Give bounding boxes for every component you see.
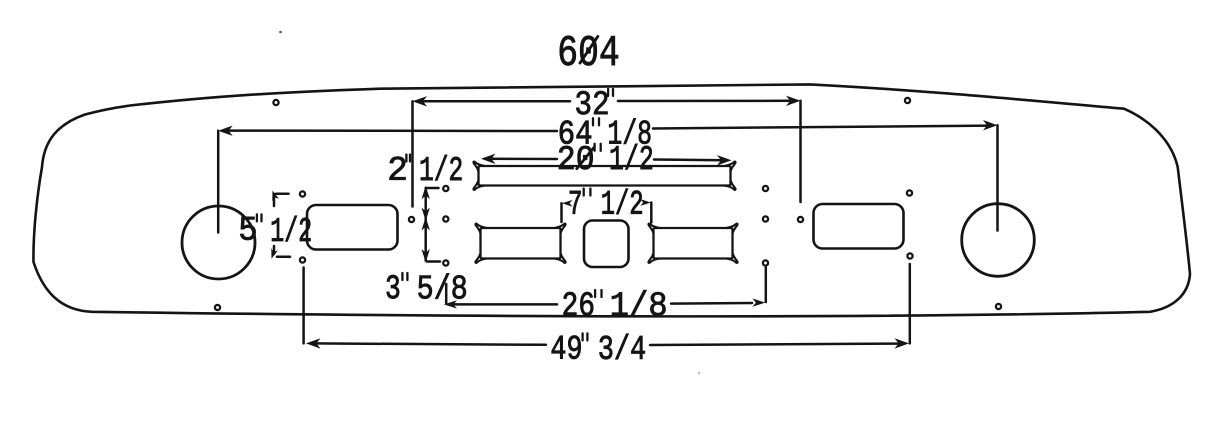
dim 49-3/4 right arrow [895,338,910,348]
left rounded-rect cutout [307,205,398,250]
title 604 [560,36,618,66]
dim 2-1/2 label part 2 [421,155,462,180]
mounting hole h12 [798,217,803,222]
dim 5-1/2 top leader arrow (up) [269,189,279,201]
mounting hole h7 [443,260,448,265]
dim 26-1/8 line right segment [671,302,752,305]
dim 26-1/8 right extension vertical [765,268,768,303]
dim 49-3/4 line right segment [650,344,902,345]
mounting hole h8 [409,217,414,222]
right gauge circle [962,204,1035,277]
mounting hole h1 [273,100,278,105]
mounting hole h6 [443,216,448,221]
dim 20-1/2 line left segment [488,158,557,161]
dim 20-1/2 label [559,146,593,169]
right rounded-rect cutout [814,204,904,249]
fraction 3/4 of 49 [599,334,644,359]
dim 49-3/4 left arrow [306,338,321,348]
dim 2-1/2 bottom arrow (down) [422,208,430,222]
quote of 64 [592,118,594,125]
dim 5-1/2 top leader tick [276,193,289,196]
dim 20-1/2 right arrow [717,155,732,165]
dim 26-1/8 line left segment [448,303,557,306]
dim 64-1/8 right arrow [983,120,998,130]
dim 5-1/2 label part 2 [272,216,311,241]
dim 2-1/2 / 3-5/8 vertical shaft [424,188,427,261]
dim 20-1/2 left arrow [481,154,496,164]
dim 32 line right segment [618,100,794,103]
dim 49-3/4 right extension vertical [909,264,912,343]
dim 7-1/2 label [570,191,581,214]
dim 5-1/2 label part 1 [240,217,255,240]
dim 49-3/4 label [552,336,581,359]
tick at bottom of 3-5/8 [427,260,440,263]
mounting hole h9 [763,186,768,191]
mounting hole h5 [443,186,448,191]
left gauge circle [182,206,255,279]
fraction 1/8 of 64 [609,118,650,143]
quote of 32 [607,89,609,96]
dim 2-1/2 label part 1 [390,157,406,180]
mounting hole h11 [763,260,768,265]
dim 26-1/8 left extension vertical [445,284,448,304]
dim 49-3/4 line left segment [313,343,546,344]
quote of 5 [256,214,258,221]
dim 32 line left segment [419,100,570,103]
dim 7-1/2 left arrow [562,200,573,207]
dim 7-1/2 right leader vertical [650,203,653,223]
dim 20-1/2 line right segment [654,158,724,161]
scan speck [279,31,282,34]
dim 3-5/8 label part 1 [387,275,399,298]
dim 32 left arrow [413,96,428,106]
dim 26-1/8 left arrow [444,300,457,308]
right middle slot [654,228,733,259]
tick at top of 2-1/2 [427,187,439,190]
dim 32 right extension line [799,101,802,202]
mounting hole h16 [996,304,1001,309]
dim 64-1/8 left extension line [217,131,220,233]
quote of 26 [594,290,596,297]
dim 64-1/8 line left segment [226,129,557,132]
dim 32 right arrow [786,96,801,106]
dim 64-1/8 line right segment [653,126,990,129]
slash of zero in 604 [580,37,598,64]
left middle slot [481,228,561,259]
center square cutout [584,221,629,268]
mounting hole h10 [763,216,768,221]
dim 26-1/8 right arrow [752,298,765,306]
mounting hole h15 [215,305,220,310]
top wide slot [479,166,731,186]
fraction 1/2 of 7 [602,189,641,214]
mounting hole h4 [300,257,305,262]
fraction 1/8 of 26 [612,290,666,315]
dim 2-1/2 top arrow (up) [422,186,430,200]
dim 32 label [576,91,607,114]
dim 32 left extension line [411,101,414,206]
quote of 20 [593,144,595,151]
dim 5-1/2 bottom leader arrow (down) [268,248,278,260]
quote of 2 [405,155,407,162]
mounting hole h14 [907,253,912,258]
mounting hole h2 [905,98,910,103]
dim 5-1/2 bottom leader tick [277,256,290,259]
quote of 3 [401,273,403,280]
dim 3-5/8 label part 2 [418,273,465,298]
panel outline [33,84,1190,316]
dim 26-1/8 label [564,292,594,315]
dim 7-1/2 right arrow [640,199,651,206]
dim 64-1/8 right extension line [996,125,999,230]
dim 5-1/2 top leader tail [273,194,276,206]
quote of 49 [581,333,583,340]
dim 5-1/2 bottom leader tail [273,246,276,254]
faint speck lower right [698,372,700,374]
dim 3-5/8 top arrow (up) [422,217,430,231]
quote of 7 [583,189,585,196]
mounting hole h3 [300,191,305,196]
slash of zero in 20 [577,148,594,169]
dim 3-5/8 bottom arrow (down) [422,249,430,263]
mounting hole h13 [907,190,912,195]
dim 7-1/2 left leader vertical [560,203,563,222]
dim 64-1/8 left arrow [218,126,233,136]
dim 49-3/4 left extension vertical [302,268,305,344]
dim 64-1/8 label [560,120,591,143]
fraction 1/2 of 20 [611,144,652,169]
